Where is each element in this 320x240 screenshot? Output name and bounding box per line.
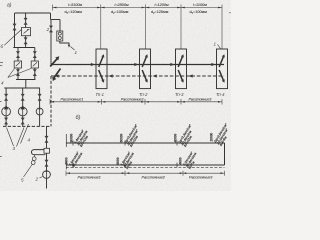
flow arrows in Tp-4: [219, 57, 223, 67]
wire: header joining risers: [13, 47, 35, 49]
wire: bypass branch riser: [25, 13, 27, 48]
valve lower on right lower branch: [33, 69, 37, 76]
wire: drop to pump header: [25, 80, 27, 89]
wire: supply riser from boiler: [50, 13, 53, 65]
wire: elbow from instrument to arrow: [60, 41, 69, 46]
dimension ties from top row to substations: [101, 11, 222, 50]
regulator box right: [31, 61, 38, 68]
wire: return main pipe (dashed): [51, 75, 224, 77]
dimension line row 3 (graph distances): [66, 171, 225, 176]
station ticks bottom line: [73, 163, 177, 168]
valve upper on right lower branch: [33, 51, 37, 58]
wire: mini header at top of risers: [51, 19, 61, 21]
node station 3 supply annotations: [174, 123, 194, 148]
graph datum line (dashed): [66, 167, 225, 169]
pump 1: [2, 106, 11, 116]
leader lines to both regulator boxes: [8, 69, 31, 78]
leader lines to pumps: [7, 128, 25, 147]
station ticks top line: [73, 141, 177, 146]
valve above pump 1: [4, 94, 8, 101]
pressure annotations top line: [70, 122, 230, 148]
flow arrowheads on return: [55, 74, 59, 77]
wire below makeup pump: [46, 179, 48, 189]
valve below pump 2: [21, 118, 25, 125]
leader line to loop: [24, 164, 33, 177]
pump 2: [18, 106, 27, 116]
small regulator circles on loop: [32, 157, 36, 161]
graph bottom line: [66, 164, 225, 166]
valve above regulator box: [24, 18, 28, 25]
wire: top collector pipe of source: [15, 12, 51, 14]
wire below mud box: [46, 153, 48, 170]
regulator box on bypass: [22, 28, 31, 36]
pipe length labels row 1: [65, 3, 208, 15]
valve below regulator box: [24, 37, 28, 44]
dimension line row 2 (distances): [50, 99, 222, 105]
arrowheads row 2: [51, 101, 222, 103]
wire: return collector (dashed): [3, 125, 51, 127]
paper noise overlay: [0, 0, 231, 191]
instrument box (flow regulator): [57, 31, 63, 41]
makeup pump: [43, 170, 51, 179]
node station 3 return annotations: [179, 150, 198, 170]
distance labels row 2: [61, 98, 212, 102]
valve upper on left lower branch: [16, 51, 20, 58]
valve above makeup pump: [45, 160, 49, 167]
valve on supply riser: [49, 26, 53, 33]
mud box: [44, 148, 50, 153]
distance labels row 3: [78, 176, 214, 180]
flow arrows in Tp-3: [178, 57, 182, 67]
valve above pump 2: [21, 94, 25, 101]
graph top line: [66, 142, 225, 144]
wire: pump suction header: [4, 87, 40, 89]
pump branch 2 wire: [22, 88, 24, 126]
flow arrow on supply at source: [50, 58, 57, 66]
flow arrowheads on supply: [91, 63, 95, 66]
wire: left lower branch: [17, 48, 19, 80]
substation Tp-3 box: [176, 49, 187, 89]
node station 1 supply annotations: [70, 128, 90, 148]
valve on left riser: [13, 24, 17, 31]
wire: supply main pipe: [51, 64, 225, 66]
pressure annotations bottom line: [65, 150, 198, 170]
graph right edge: [224, 143, 226, 165]
dimension arrowheads row 1: [53, 7, 221, 9]
arrowheads row 3: [67, 172, 224, 174]
wire: return riser (dashed): [50, 76, 52, 126]
makeup line valve from collector: [46, 126, 48, 148]
pump branch 1 wire: [5, 88, 7, 126]
flow arrows in Tp-1: [99, 57, 103, 67]
flow arrow on return at source: [54, 69, 61, 79]
instrument branch wire: [59, 20, 61, 32]
regulator box left: [14, 61, 21, 68]
substation Tp-2 box: [140, 49, 151, 89]
graph left ticks: [65, 134, 67, 170]
heater U-loop pipe: [31, 150, 45, 155]
wire: header below branches: [16, 79, 36, 81]
wire: right lower branch: [34, 48, 36, 80]
dimension line row 1: [53, 5, 223, 11]
pump branch 3 wire: [39, 88, 41, 126]
substation Tp-4 box: [217, 49, 228, 89]
node station 2 return annotations: [116, 150, 135, 170]
pump 3 (smaller): [36, 107, 43, 115]
substation Tp-1 box: [96, 49, 107, 89]
node station 2 supply annotations: [120, 123, 140, 148]
node station 1 return annotations: [65, 150, 84, 168]
valve below pump 1: [4, 118, 8, 125]
edge specks: [0, 13, 231, 157]
wire: left riser of source: [14, 13, 16, 48]
flow arrows in Tp-2: [142, 57, 146, 67]
valve lower on left lower branch: [16, 69, 20, 76]
node station 4 supply annotations: [209, 122, 229, 147]
valve above pump 3: [38, 94, 42, 101]
